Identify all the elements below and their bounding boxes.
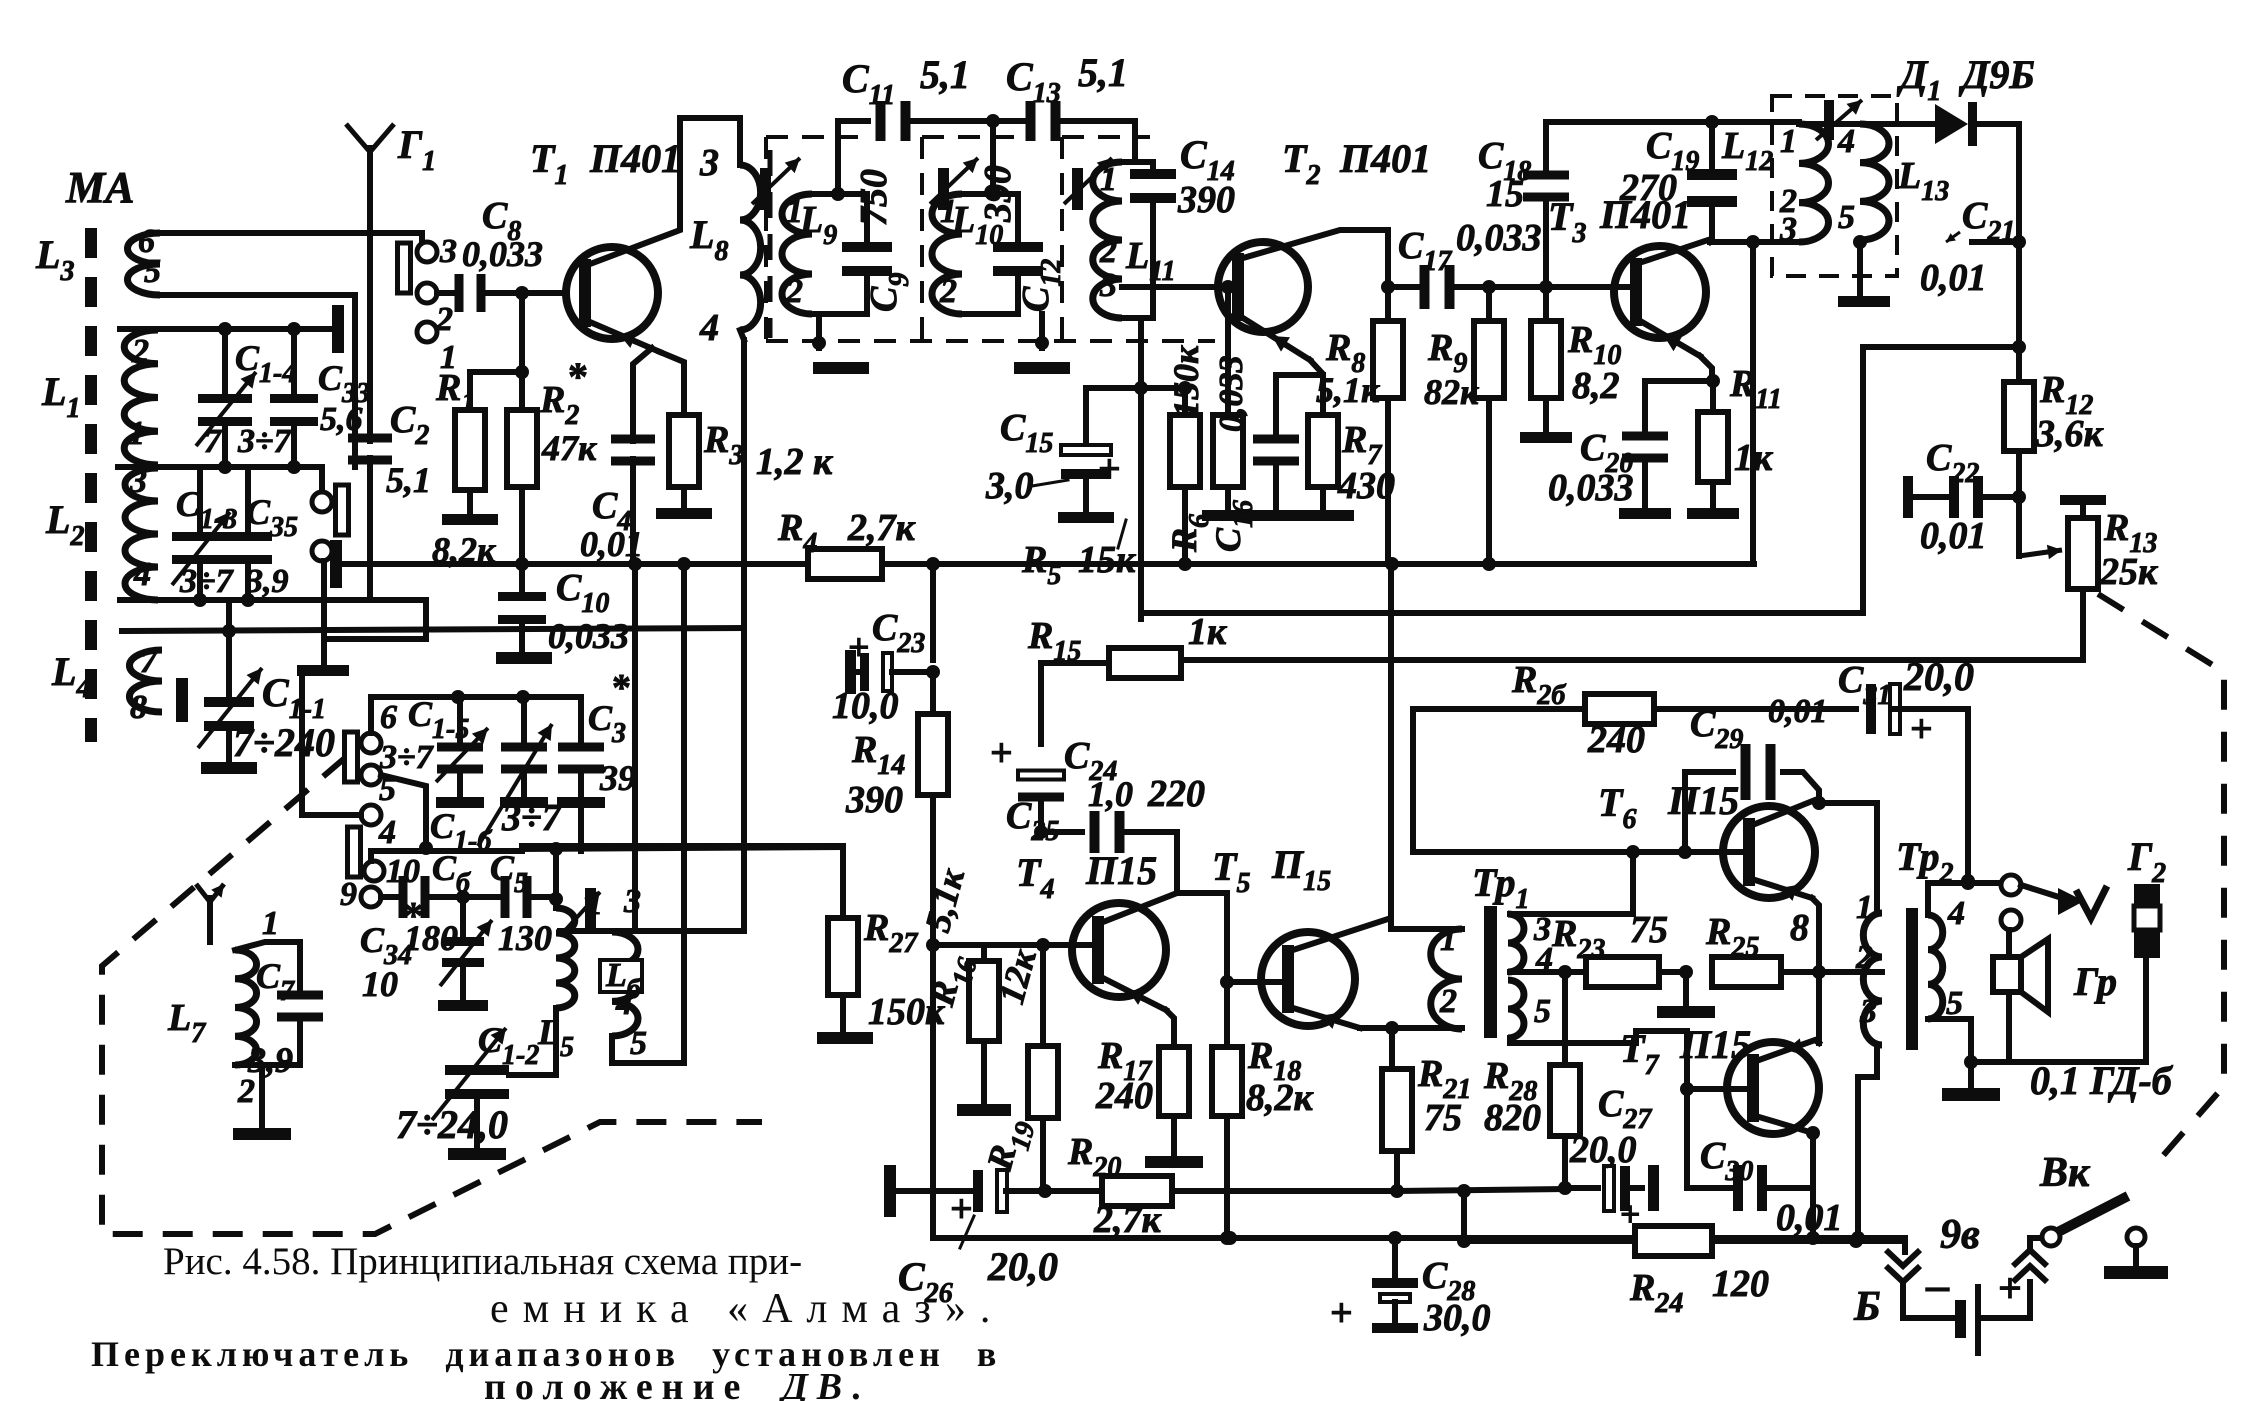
ground bar of Vk bbox=[2104, 1266, 2168, 1279]
ground bar of L13 bbox=[1838, 296, 1890, 307]
wire Tr2 pin4 up bbox=[1928, 876, 1975, 915]
svg-text:5,1: 5,1 bbox=[1078, 50, 1128, 95]
external antenna icon bbox=[196, 884, 224, 930]
label C11 bbox=[842, 56, 895, 111]
wire R20 row to T7 area bbox=[1397, 1189, 1564, 1191]
label C18 bbox=[1478, 135, 1531, 187]
label C35 bbox=[246, 492, 298, 543]
value 390 of C12 bbox=[977, 165, 1019, 223]
headphone jack contact lower bbox=[2001, 910, 2021, 930]
resistor R9 bbox=[1474, 287, 1504, 564]
svg-text:МА: МА bbox=[65, 163, 134, 212]
svg-text:5: 5 bbox=[144, 253, 161, 290]
label C4 bbox=[592, 485, 631, 537]
switch contact 2 bbox=[417, 283, 453, 338]
tank3 tuning arrow bbox=[1064, 158, 1112, 204]
wire x933 down bbox=[930, 945, 936, 1238]
magnetic antenna dashed boundary bbox=[85, 228, 97, 742]
svg-text:1к: 1к bbox=[1188, 611, 1228, 653]
Tr1 core bar bbox=[1484, 906, 1497, 1038]
label 9v bbox=[1940, 1212, 1980, 1258]
node MA (magnetic antenna) label bbox=[65, 163, 134, 212]
ground bar of R1 bbox=[442, 514, 498, 525]
svg-text:25к: 25к bbox=[2099, 551, 2159, 593]
wire L12 top to L13 top bbox=[1799, 121, 1860, 127]
wire to battery connector bbox=[1902, 1241, 1908, 1252]
label C10 bbox=[556, 567, 609, 619]
inductor L3 bbox=[35, 232, 160, 295]
svg-text:75: 75 bbox=[1630, 909, 1668, 951]
wire C11 top line bbox=[838, 121, 868, 194]
value 3,9 of C35 bbox=[245, 563, 289, 600]
value 8,2k of R1 bbox=[432, 530, 496, 570]
label P401 of T2 bbox=[1339, 136, 1431, 181]
label L9 bbox=[799, 199, 837, 251]
transistor T3 bbox=[1614, 246, 1706, 338]
inductor L2 bbox=[45, 468, 158, 600]
capacitor C11 bbox=[876, 101, 1030, 141]
capacitor C1-3 (variable) bbox=[172, 467, 230, 600]
value 130 of C5 bbox=[498, 918, 552, 958]
svg-text:1: 1 bbox=[1856, 889, 1873, 926]
value 7÷240 of C1-1 bbox=[233, 720, 335, 765]
resistor R2 bbox=[507, 410, 537, 487]
value 15k of R5 bbox=[1078, 520, 1137, 581]
label P15 of T7 bbox=[1679, 1022, 1751, 1067]
T7 emitter wire bbox=[1759, 972, 1819, 1060]
resistor R3 bbox=[669, 415, 699, 487]
label R3 bbox=[703, 419, 743, 471]
value 2,7k of R4 bbox=[847, 507, 917, 549]
capacitor C28 bbox=[1372, 1238, 1418, 1333]
svg-text:3: 3 bbox=[1099, 267, 1117, 304]
value 5,1k of R8 bbox=[1316, 370, 1380, 410]
plus of C26 bbox=[950, 1186, 973, 1231]
label R10 bbox=[1567, 319, 1621, 371]
capacitor C22 bbox=[1903, 476, 2019, 518]
value 8,2 of R10 bbox=[1572, 365, 1620, 407]
node T1 base bbox=[515, 286, 529, 300]
label R17 bbox=[1097, 1035, 1152, 1087]
value 25k of R13 bbox=[2099, 551, 2159, 593]
oscillator tank3 dashed box bbox=[1062, 137, 1150, 341]
value 12k of R19 (rotated) bbox=[991, 945, 1044, 1008]
T4 emitter wire bbox=[1103, 978, 1174, 1047]
caption line 2 bbox=[490, 1286, 1004, 1332]
rail left ground bar bbox=[330, 540, 342, 588]
resistor R27 bbox=[828, 918, 858, 995]
capacitor C19 bbox=[1687, 122, 1737, 242]
wire emitter to C4 bbox=[633, 348, 652, 432]
pin 1 of L1 bbox=[128, 415, 145, 452]
T5 base wire bbox=[1227, 979, 1282, 985]
svg-text:0,033: 0,033 bbox=[1548, 467, 1634, 509]
label C22 bbox=[1926, 437, 1979, 489]
svg-text:7: 7 bbox=[140, 643, 159, 680]
oscillator tank2 dashed box bbox=[922, 137, 1014, 341]
headphone jack G2 body bbox=[2134, 884, 2160, 958]
svg-text:3: 3 bbox=[1779, 211, 1797, 248]
pin 2 of L1 bbox=[131, 333, 149, 370]
label C24 bbox=[1064, 735, 1117, 787]
label L12 bbox=[1721, 125, 1773, 177]
svg-text:2: 2 bbox=[1439, 983, 1457, 1020]
value 120 of R24 bbox=[1712, 1263, 1769, 1305]
value 240 of R17 bbox=[1095, 1075, 1153, 1117]
wire rail to L6 bottom bbox=[612, 564, 684, 1063]
label L10 bbox=[951, 199, 1003, 251]
ground bar of R3 bbox=[656, 508, 712, 519]
inductor L5 bbox=[556, 899, 575, 1008]
value 20,0 of C31 bbox=[1903, 654, 1974, 699]
plus of C28 bbox=[1330, 1290, 1353, 1335]
capacitor C14 bbox=[1130, 162, 1176, 318]
pin 1 of L7 bbox=[262, 905, 279, 942]
wire contact to ground (row2) bbox=[321, 561, 327, 665]
svg-text:положение ДВ.: положение ДВ. bbox=[484, 1366, 870, 1401]
capacitor C20 bbox=[1622, 381, 1668, 508]
coupling line to R27 bbox=[371, 851, 522, 861]
svg-text:4: 4 bbox=[699, 307, 719, 349]
label L11 bbox=[1125, 235, 1176, 287]
svg-text:4: 4 bbox=[615, 985, 633, 1022]
value 3÷7 of C1-6 bbox=[501, 797, 563, 839]
resistor R16 bbox=[969, 945, 999, 1041]
label R19 (rotated) bbox=[979, 1113, 1042, 1177]
switch Vk bbox=[2042, 1196, 2128, 1246]
capacitor C2 bbox=[348, 432, 392, 600]
label R7 bbox=[1341, 419, 1382, 471]
svg-text:1: 1 bbox=[786, 193, 803, 230]
capacitor C29 bbox=[1685, 744, 1819, 852]
wire R16 to ground bbox=[981, 1041, 987, 1104]
capacitor C21 stub bbox=[1972, 239, 2019, 245]
wire speaker bottom bbox=[2006, 992, 2012, 1062]
wire D1 down to detector node bbox=[2012, 124, 2026, 354]
capacitor C34* (variable) bbox=[438, 897, 492, 1011]
resistor R19 bbox=[1028, 945, 1058, 1191]
svg-text:7: 7 bbox=[204, 423, 223, 460]
ground of R23/R25 node bbox=[1657, 972, 1715, 1018]
label L5 bbox=[537, 1012, 574, 1063]
value 430 of R7 bbox=[1337, 465, 1395, 507]
headphone jack V symbol bbox=[2058, 886, 2107, 918]
switch contact 9 bbox=[340, 876, 381, 913]
svg-text:5: 5 bbox=[630, 1025, 647, 1062]
svg-text:240: 240 bbox=[1095, 1075, 1153, 1117]
ground bar of R17 bbox=[1145, 1156, 1203, 1168]
wire Tr1 pin5 to T7 base bbox=[1510, 1031, 1687, 1089]
battery connector chevron minus bbox=[1886, 1250, 1920, 1282]
value 0,01 of C4 bbox=[580, 524, 643, 564]
svg-text:4: 4 bbox=[133, 556, 151, 593]
label P401 of T3 bbox=[1599, 192, 1691, 237]
pin 3 of L6 bbox=[623, 883, 641, 920]
T7 base wire bbox=[1680, 1082, 1747, 1096]
value 0,033 of C8 bbox=[462, 234, 543, 274]
wire Tr1 tap to R23 bbox=[1510, 965, 1572, 979]
wire base to R1/R2 bbox=[515, 293, 529, 410]
value 150k of R27 bbox=[868, 991, 946, 1033]
svg-text:75: 75 bbox=[1424, 1097, 1462, 1139]
svg-text:3: 3 bbox=[439, 233, 457, 270]
transistor T6 bbox=[1723, 806, 1815, 898]
transistor T5 bbox=[1261, 932, 1355, 1026]
svg-text:Б: Б bbox=[1853, 1284, 1881, 1330]
wire jack contact bbox=[2021, 885, 2062, 898]
label R14 bbox=[851, 729, 905, 781]
wire L12 bottom to rail bbox=[1750, 242, 1756, 564]
Tr2 primary coil bbox=[1863, 913, 1882, 1045]
value 1k of R11 bbox=[1734, 437, 1774, 479]
capacitor C9 bbox=[842, 194, 892, 314]
value 0,033 of C10 bbox=[548, 616, 629, 656]
switch contact 1 bbox=[417, 322, 457, 376]
value 47k of R2 bbox=[541, 428, 597, 468]
svg-text:1: 1 bbox=[1780, 123, 1797, 160]
capacitor C12 bbox=[993, 194, 1043, 314]
svg-text:5,6: 5,6 bbox=[320, 401, 363, 438]
dashed box L12/L13 bbox=[1772, 96, 1897, 276]
pin 5 of L6 bbox=[630, 1025, 647, 1062]
svg-text:+: + bbox=[848, 627, 870, 669]
ground bar of R10 bbox=[1520, 432, 1572, 443]
label R21 bbox=[1417, 1053, 1471, 1105]
svg-text:2,7к: 2,7к bbox=[847, 507, 917, 549]
pin 5 of Tr1 bbox=[1534, 993, 1551, 1030]
label C1-2 bbox=[478, 1020, 539, 1071]
capacitor C1-6 (variable) bbox=[478, 697, 552, 846]
wire L11 feedback to R15 area bbox=[1138, 613, 1144, 619]
resistor R26 bbox=[1413, 694, 1856, 724]
T1 collector wire bbox=[590, 118, 680, 264]
label C1-5 bbox=[408, 694, 469, 745]
label R13 bbox=[2103, 507, 2157, 559]
label C7 bbox=[256, 956, 295, 1007]
emitter node wire bbox=[1276, 372, 1323, 378]
label C27 bbox=[1598, 1083, 1652, 1135]
svg-text:9: 9 bbox=[340, 876, 357, 913]
label L13 bbox=[1897, 155, 1949, 207]
value 150k of R6 (rotated) bbox=[1166, 345, 1206, 418]
wire contact 5 down to line bbox=[381, 775, 426, 848]
dashed boundary to R13/Vk bbox=[2098, 594, 2224, 1166]
T4 base wire bbox=[926, 938, 1092, 952]
transistor T4 bbox=[1072, 903, 1166, 997]
resistor R21 bbox=[1382, 1028, 1412, 1198]
plus of C24 bbox=[990, 730, 1013, 775]
capacitor C25 bbox=[1041, 811, 1177, 893]
svg-text:*: * bbox=[568, 354, 588, 399]
wire Tr1 pin3 to T6 base bbox=[1510, 852, 1633, 914]
value 10 of C34 bbox=[362, 964, 398, 1004]
switch contact 10 bbox=[364, 853, 420, 890]
svg-text:6: 6 bbox=[380, 699, 397, 736]
pin 6 of L3 bbox=[138, 223, 155, 260]
ground bar of C10 bbox=[496, 652, 552, 664]
ground bar of L7 bbox=[233, 1128, 291, 1140]
capacitor C31 bbox=[1866, 684, 1975, 888]
svg-text:7÷240: 7÷240 bbox=[233, 720, 335, 765]
resistor R1 bbox=[455, 410, 485, 490]
svg-text:0,01: 0,01 bbox=[1920, 515, 1987, 557]
capacitor C10 bbox=[498, 564, 546, 652]
inductor L13 bbox=[1860, 124, 1889, 240]
Tr1 secondary lower coil bbox=[1508, 980, 1524, 1038]
Tr1 secondary upper coil bbox=[1508, 914, 1524, 972]
svg-text:Гр: Гр bbox=[2073, 959, 2117, 1004]
capacitor C24 bbox=[1018, 663, 1064, 839]
svg-text:5,1: 5,1 bbox=[920, 52, 970, 97]
pin 1 of L11 bbox=[1100, 161, 1117, 198]
svg-text:Д9Б: Д9Б bbox=[1958, 52, 2035, 97]
resistor R15 bbox=[1041, 648, 1181, 678]
label C29 bbox=[1690, 703, 1743, 755]
label P401 of T1 bbox=[589, 136, 681, 181]
transistor T2 bbox=[1218, 242, 1308, 332]
svg-text:8,2: 8,2 bbox=[1572, 365, 1620, 407]
switch contact (row2 lower) bbox=[312, 541, 332, 561]
switch bar row2 bbox=[336, 485, 349, 535]
wire Tr2 pin3 down bbox=[1858, 1047, 1877, 1241]
resistor R4 bbox=[808, 549, 882, 579]
svg-text:+: + bbox=[990, 730, 1013, 775]
capacitor C1-1 (variable) bbox=[198, 600, 262, 762]
svg-text:3: 3 bbox=[699, 142, 719, 184]
value 3÷7 of C1-4 bbox=[237, 423, 293, 460]
resistor R24 bbox=[1464, 1226, 1905, 1256]
pin 2 of L12 bbox=[1779, 183, 1797, 220]
capacitor C5 bbox=[501, 876, 564, 918]
pin 1 of L9 bbox=[786, 193, 803, 230]
value 75 of R23 bbox=[1630, 909, 1668, 951]
resistor R27 feed wire bbox=[522, 846, 843, 918]
caption line 3 bbox=[91, 1334, 1001, 1374]
value 15 of C18 bbox=[1486, 173, 1524, 215]
label C12 bbox=[1015, 259, 1067, 312]
ground bar of C15 bbox=[1058, 512, 1114, 523]
capacitor C15 bbox=[1061, 388, 1111, 512]
capacitor C1-5 (variable) bbox=[436, 697, 488, 808]
label C16 (rotated) bbox=[1208, 500, 1259, 552]
wire R26 to T6 base bbox=[1410, 709, 1416, 852]
pin 1 of L10 bbox=[940, 193, 957, 230]
wire L13 to ground bbox=[1853, 235, 1867, 296]
resistor R23 bbox=[1565, 957, 1693, 987]
loudspeaker Gr bbox=[1993, 939, 2048, 1012]
capacitor C30 bbox=[1687, 1089, 1813, 1211]
ground bar at L4 pin 8 bbox=[176, 678, 188, 722]
value 5,6 of C33 bbox=[320, 401, 363, 438]
ground bar of output bbox=[1942, 1088, 2000, 1101]
svg-text:П401: П401 bbox=[589, 136, 681, 181]
label R2* bbox=[539, 354, 588, 431]
svg-text:2: 2 bbox=[131, 333, 149, 370]
label R6 (rotated) bbox=[1164, 514, 1215, 553]
svg-text:20,0: 20,0 bbox=[1903, 654, 1974, 699]
tank3 trimmer bar bbox=[1072, 168, 1083, 210]
pin 4 of L13 bbox=[1837, 123, 1855, 160]
inductor L12 bbox=[1799, 124, 1829, 242]
wire R27 to ground bbox=[840, 995, 846, 1032]
svg-text:4: 4 bbox=[378, 814, 396, 851]
value 0,033 of C17 bbox=[1456, 217, 1542, 259]
value 7÷240 of C1-2 bbox=[396, 1102, 508, 1147]
label R12 bbox=[2039, 369, 2093, 421]
capacitor C1-4 (variable) bbox=[196, 329, 256, 467]
svg-text:47к: 47к bbox=[541, 428, 597, 468]
svg-text:150к: 150к bbox=[1166, 345, 1206, 418]
svg-text:–: – bbox=[1925, 1259, 1950, 1310]
label C26 bbox=[898, 1216, 974, 1309]
value 220 of C25 bbox=[1147, 773, 1205, 815]
wire C3 node to R27 line bbox=[578, 802, 584, 851]
tank1 tuning arrow bbox=[752, 158, 800, 204]
capacitor C6 bbox=[381, 876, 500, 918]
wire R2 to rail bbox=[515, 487, 529, 571]
transformer Tr2 label bbox=[1896, 834, 1953, 889]
switch contact 4 bbox=[361, 805, 396, 851]
label C21 bbox=[1946, 195, 2015, 247]
switch bar contacts 10/9 bbox=[348, 827, 361, 877]
label R5 bbox=[1021, 539, 1061, 591]
label C17 bbox=[1398, 225, 1452, 277]
value 0,033 of C20 bbox=[1548, 467, 1634, 509]
svg-text:220: 220 bbox=[1147, 773, 1205, 815]
label C23 bbox=[872, 607, 925, 659]
svg-text:3÷7: 3÷7 bbox=[237, 423, 293, 460]
wire rail down at x933 bbox=[930, 564, 936, 660]
Tr2 core bar bbox=[1906, 908, 1918, 1050]
label R11 bbox=[1729, 363, 1782, 415]
pin 3 of L12 bbox=[1779, 211, 1797, 248]
inductor L8 bbox=[680, 118, 761, 340]
ground bar of node row 1 bbox=[332, 305, 344, 353]
svg-text:0,1 ГД-б: 0,1 ГД-б bbox=[2030, 1058, 2174, 1103]
label C14 bbox=[1180, 132, 1235, 187]
inductor L11 bbox=[1093, 162, 1153, 318]
svg-text:4: 4 bbox=[1837, 123, 1855, 160]
label C31 bbox=[1838, 659, 1891, 711]
wire antenna icon to L7 bbox=[207, 930, 213, 942]
svg-text:20,0: 20,0 bbox=[1569, 1129, 1637, 1171]
resistor R10 bbox=[1531, 287, 1561, 432]
switch Vk second contact bbox=[2127, 1228, 2145, 1266]
svg-text:*: * bbox=[404, 895, 423, 937]
transformer Tr1 label bbox=[1472, 860, 1529, 915]
ground bar of R7 bbox=[1302, 510, 1354, 521]
plus of C31 bbox=[1910, 706, 1933, 751]
value 0,01 of C22 bbox=[1920, 515, 1987, 557]
pin 4 of Tr2 bbox=[1947, 895, 1965, 932]
inductor L6 bbox=[612, 932, 638, 1063]
svg-text:5,1к: 5,1к bbox=[1316, 370, 1380, 410]
capacitor C1-2 (variable) bbox=[432, 1008, 556, 1148]
pin 2 of L7 bbox=[237, 1073, 255, 1110]
svg-text:15к: 15к bbox=[1078, 539, 1137, 581]
pin 1 of L5 bbox=[586, 885, 603, 922]
label C33 bbox=[318, 358, 370, 409]
resistor R28 bbox=[1550, 972, 1580, 1195]
value 8 of R25 bbox=[1790, 907, 1809, 949]
value 3,9 of C7 bbox=[247, 1040, 293, 1080]
value 3÷7 of C1-3 bbox=[179, 563, 235, 600]
tank1 trimmer bar bbox=[760, 168, 771, 210]
label R23 bbox=[1551, 913, 1605, 965]
wire antenna G1 down to C2 bbox=[367, 178, 373, 432]
pin 5 of L3 bbox=[144, 253, 161, 290]
svg-text:8,2к: 8,2к bbox=[1246, 1077, 1315, 1119]
